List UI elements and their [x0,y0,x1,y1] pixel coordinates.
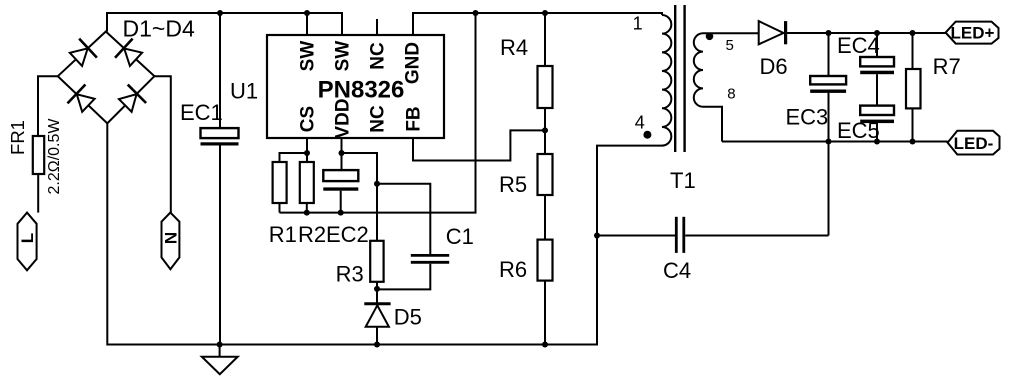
wire NC top stub [376,19,378,35]
node D5 bottom rail [374,342,380,348]
ground symbol [202,357,238,375]
wire top rail A (bridge + to SW pins) [107,13,342,35]
svg-text:EC3: EC3 [786,105,829,130]
diode D3 (bottom-left arm) [67,85,97,115]
svg-text:LED+: LED+ [951,24,995,43]
svg-text:NC: NC [368,105,389,133]
node C4 left [594,233,600,239]
T1 primary phase dot [643,131,651,139]
node R3 / D5 / C1 [374,286,380,292]
node rail A / SW1 [304,10,310,16]
wire LED+ rail [786,32,946,34]
svg-text:LED-: LED- [954,134,994,153]
diode D2 (top-right arm) [115,39,145,69]
transformer T1 primary winding (pins 1-4) [662,15,671,146]
svg-text:R6: R6 [499,257,527,282]
resistor R2 [300,162,314,203]
svg-text:R4: R4 [500,35,528,60]
node LED- rail / EC3 [826,139,832,145]
node VDD / R3 / C1 [374,181,380,187]
wire EC1 bottom [219,146,221,345]
capacitor EC2 [323,170,358,181]
svg-text:4: 4 [635,112,645,132]
bridge rectifier D1~D4 diamond [58,32,155,124]
node rail A / EC1 [217,10,223,16]
resistor FR1 [33,136,44,174]
svg-text:T1: T1 [670,168,696,193]
capacitor EC4 [860,57,894,66]
svg-text:5: 5 [726,37,734,54]
svg-text:SW: SW [333,41,354,72]
diode D5 (zener, cathode up) [364,302,390,305]
node LED+ rail / EC4 [874,30,880,36]
wire R6 to bottom rail [544,281,546,345]
svg-text:N: N [161,232,180,244]
svg-text:R3: R3 [336,262,364,287]
wire FB pin to R4/R5 node [413,130,545,160]
wire top rail B (GND pin to transformer pin 1) [413,13,662,35]
svg-text:FB: FB [404,106,425,131]
node LED+ rail / R7 [910,30,916,36]
resistor R4 [538,66,553,108]
node CS / R1 [304,150,310,156]
svg-text:FR1: FR1 [7,120,28,155]
wire C1 bottom [377,264,430,290]
wire CS pin riser [306,138,308,162]
wire R4 to R5 [544,108,546,154]
node rail B / R4 [542,10,548,16]
wire R7 riser [912,33,914,69]
svg-text:8: 8 [727,86,735,103]
node rail B / sense bus riser [473,10,479,16]
wire R3 to D5 [376,282,378,305]
node LED- rail / EC5 [874,139,880,145]
node R2 bottom [304,210,310,216]
svg-text:VDD: VDD [333,98,354,138]
svg-text:CS: CS [298,106,319,132]
wire ground stub [219,345,221,357]
svg-text:R2: R2 [298,222,326,247]
svg-text:EC4: EC4 [837,33,880,58]
transformer T1 core [674,5,676,152]
wire SW pin1 riser [306,13,308,35]
wire EC1 top [219,13,221,128]
svg-text:D5: D5 [394,304,422,329]
wire EC4 to EC5 [876,74,878,105]
node VDD / EC2 [339,150,345,156]
wire CS to R1 top [280,153,308,162]
wire EC3 bottom through LED- rail to C4 [828,93,830,236]
capacitor EC1 [201,128,239,138]
svg-text:EC5: EC5 [837,118,880,143]
wire rail B to R4 [544,13,546,66]
diode D1 (top-left arm) [67,39,97,69]
svg-text:NC: NC [368,42,389,70]
resistor R6 [538,240,553,281]
node FB / R4 / R5 [542,127,548,133]
terminal L [18,213,37,271]
svg-text:R1: R1 [269,222,297,247]
svg-text:U1: U1 [230,79,258,104]
node EC2 bottom [338,210,344,216]
terminal LED- [948,131,1000,155]
svg-text:D1~D4: D1~D4 [123,16,195,42]
resistor R5 [538,154,553,195]
svg-text:SW: SW [298,41,319,72]
wire right vertex to N terminal [154,76,170,212]
wire D5 to bottom rail [376,327,378,345]
wire secondary pin 5 to D6 [703,32,759,34]
capacitor C4 [597,235,675,237]
diode D6 [759,21,784,44]
svg-text:EC1: EC1 [180,100,223,125]
terminal N [162,213,180,270]
wire left vertex to FR1 [38,76,58,136]
wire C1 branch top [377,184,430,254]
op-amp U1 PN8326 chip body [267,35,444,138]
svg-text:GND: GND [403,42,424,84]
T1 secondary phase dot [706,33,714,41]
capacitor EC5 [860,106,894,115]
wire bridge bottom vertex down, bottom rail, riser to transformer pin 4 [107,123,663,344]
wire R2 bottom [306,203,308,213]
svg-text:D6: D6 [760,54,788,79]
wire R7 bottom [912,108,914,141]
wire R1 bottom [279,203,281,213]
capacitor C1 [411,254,449,257]
wire R1 R2 EC2 bottom bus up to rail B [280,13,476,213]
wire EC2 bottom [340,191,342,213]
node LED+ rail / EC3 [826,30,832,36]
wire LED- rail [722,141,948,143]
terminal LED+ [946,22,999,44]
svg-text:C4: C4 [663,258,691,283]
wire VDD elbow to R3 node [342,153,378,184]
wire VDD pin riser to EC2 [341,138,343,170]
wire EC5 to LED- rail [876,123,878,141]
svg-text:C1: C1 [446,224,474,249]
node LED- rail / R7 [910,139,916,145]
wire EC4 riser [876,33,878,57]
wire EC3 riser top [828,33,830,76]
svg-text:PN8326: PN8326 [318,77,405,104]
resistor R7 [906,69,921,108]
wire R5 to R6 [544,195,546,240]
transformer T1 secondary winding (pins 5-8) [694,33,703,107]
svg-text:L: L [18,233,37,243]
node R6 bottom rail [542,342,548,348]
resistor R1 [273,162,287,203]
node ground / EC1 [217,342,223,348]
svg-text:R5: R5 [499,172,527,197]
capacitor EC3 [810,76,846,84]
svg-text:EC2: EC2 [326,222,369,247]
diode D4 (bottom-right arm) [116,85,146,115]
wire R3 node down [376,184,378,241]
wire secondary pin 8 to LED- rail [703,107,722,142]
wire FR1 to L terminal [37,174,39,213]
svg-text:2.2Ω/0.5W: 2.2Ω/0.5W [46,118,63,195]
svg-text:1: 1 [633,14,643,34]
resistor R3 [370,241,383,282]
svg-text:R7: R7 [933,54,961,79]
